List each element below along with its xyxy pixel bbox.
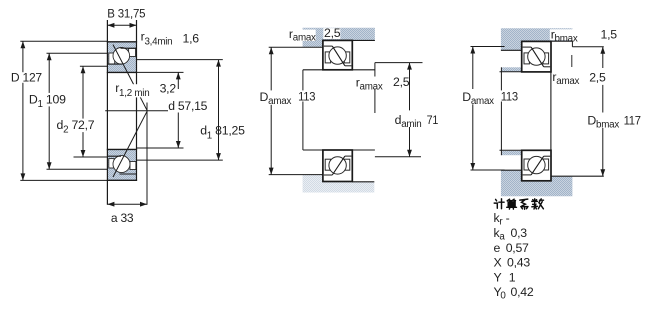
extension line d1 top bbox=[137, 59, 223, 61]
top bearing box bbox=[522, 41, 551, 72]
arrow D down bbox=[21, 173, 26, 180]
dimension da line lower part bbox=[409, 127, 411, 157]
svg-text:D 127: D 127 bbox=[11, 71, 42, 85]
shaft shoulder face line right lower part bbox=[374, 89, 376, 114]
glyph 系 bbox=[520, 199, 528, 209]
svg-text:113: 113 bbox=[501, 90, 519, 104]
shaft seat line bottom right bbox=[352, 149, 375, 151]
extension line D bottom bbox=[20, 179, 107, 181]
arrow d up bbox=[176, 72, 181, 79]
svg-text:e: e bbox=[494, 241, 501, 255]
svg-text:1,6: 1,6 bbox=[183, 31, 200, 45]
bottom box inner-ring line right bbox=[544, 155, 551, 157]
extension line d1 bottom bbox=[137, 159, 223, 161]
svg-text:3,2: 3,2 bbox=[160, 82, 177, 96]
housing bore line over boxes (top) bbox=[522, 40, 573, 42]
arrow D1 down bbox=[47, 162, 52, 169]
housing shoulder face line right (top) bbox=[571, 41, 573, 47]
shaft end face line lower part bbox=[302, 102, 304, 151]
housing bore line right of top box bbox=[352, 39, 375, 41]
bottom box right cage rect bbox=[344, 159, 350, 170]
heading 计算系数 (hand-drawn CJK strokes) bbox=[494, 199, 543, 210]
bearing right face line (also B extension) bbox=[136, 20, 138, 86]
bearing left face line (also B extension, extends to a-dimension) bbox=[106, 20, 108, 205]
bottom section outer-ring shoulder line bbox=[120, 173, 137, 175]
extension line d2 top bbox=[80, 65, 108, 67]
dimension Db line lower part bbox=[602, 128, 604, 176]
label d1 81,25 bbox=[200, 124, 245, 142]
bearing bottom section body (blue stippled rings) bbox=[107, 149, 136, 180]
bottom box contact diagonal bbox=[332, 156, 345, 175]
shaft shoulder strip top (stippled) bbox=[501, 67, 522, 71]
svg-text:1,5: 1,5 bbox=[601, 28, 618, 42]
housing shoulder surface line top left bbox=[269, 46, 323, 48]
top box ball bbox=[528, 48, 545, 65]
shaft seat line top left bbox=[500, 71, 523, 73]
arrow d1 up bbox=[216, 60, 221, 67]
arrow d1 down bbox=[216, 153, 221, 160]
value 1,5 bbox=[599, 28, 622, 42]
label D1 109 bbox=[28, 92, 67, 110]
shaft seat line bottom left bbox=[500, 149, 523, 151]
dimension a line bbox=[107, 203, 147, 205]
housing shoulder top line bottom-left bbox=[501, 169, 522, 171]
arrow Db up bbox=[600, 47, 605, 54]
bottom section right cage pocket (white) bbox=[130, 162, 136, 170]
shaft seat line top right bbox=[352, 69, 375, 71]
label D 127 bbox=[10, 71, 44, 85]
bottom section left cage pocket (white) bbox=[109, 159, 114, 168]
arrow B left bbox=[107, 23, 114, 28]
glyph 数 bbox=[532, 199, 544, 209]
dimension d line bbox=[177, 72, 179, 148]
arrow Da up bbox=[470, 47, 475, 54]
bottom box left cage rect bbox=[325, 159, 330, 170]
svg-text:0,57: 0,57 bbox=[506, 241, 529, 255]
label r1,2min (white bg over face line) bbox=[113, 81, 154, 99]
shaft end face line (right, between boxes) bbox=[550, 72, 552, 150]
dimension d1 line bbox=[218, 60, 220, 161]
bottom section top border (bore) bbox=[107, 148, 137, 150]
svg-text:0,43: 0,43 bbox=[507, 256, 530, 270]
label rb max (white bg over band) bbox=[550, 28, 583, 45]
dimension Da line lower part bbox=[270, 105, 272, 175]
arrow da down bbox=[407, 150, 412, 157]
svg-text:113: 113 bbox=[298, 90, 316, 104]
svg-text:B 31,75: B 31,75 bbox=[107, 7, 145, 21]
extension line Da top bbox=[471, 46, 505, 48]
top box ball bbox=[329, 47, 346, 64]
housing bore line right of bottom box bbox=[352, 181, 374, 183]
arrow a right bbox=[140, 202, 147, 207]
top box contact diagonal bbox=[332, 46, 345, 66]
extension line D top bbox=[20, 40, 107, 42]
bottom section bottom border (outer diameter) bbox=[107, 179, 137, 181]
label d 57,15 bbox=[168, 89, 207, 113]
arrow d2 up bbox=[81, 66, 86, 73]
dimension Da line upper part bbox=[472, 47, 474, 90]
housing shoulder surface line bottom left bbox=[269, 174, 323, 176]
bottom bearing box bbox=[522, 150, 551, 181]
bottom box inner-ring line right bbox=[345, 155, 352, 157]
housing shoulder bottom line top-left bbox=[501, 49, 522, 51]
bottom box ball bbox=[329, 157, 346, 174]
svg-text:2,5: 2,5 bbox=[393, 75, 410, 89]
arrow Da down bbox=[269, 168, 274, 175]
arrow B right bbox=[130, 23, 137, 28]
leader line from ra max label to shoulder corner bbox=[571, 55, 573, 67]
bottom box right cage rect bbox=[543, 159, 549, 170]
dimension da line upper part bbox=[409, 63, 411, 111]
top box left cage rect bbox=[524, 53, 529, 64]
housing bottom band (light stippled) with abutment shoulder bbox=[303, 175, 375, 193]
top box right cage rect bbox=[344, 52, 350, 63]
bottom bearing box bbox=[323, 150, 352, 182]
svg-text:Y: Y bbox=[494, 270, 502, 284]
dimension D1 line bbox=[48, 53, 50, 169]
extension line D1 bottom bbox=[47, 168, 108, 170]
extension line d top (bore) bbox=[137, 71, 184, 73]
dimension B line bbox=[107, 24, 136, 26]
top box outer-ring line left bbox=[523, 46, 532, 48]
top section inner-ring shoulder line bbox=[107, 63, 122, 65]
housing top band (stippled) with left shoulder bbox=[501, 28, 573, 50]
svg-text:d 57,15: d 57,15 bbox=[168, 99, 207, 113]
arrow Da up bbox=[269, 47, 274, 54]
bottom box outer-ring line left bbox=[324, 174, 333, 176]
svg-text:0: 0 bbox=[500, 291, 506, 302]
top box inner-ring line right bbox=[345, 65, 352, 67]
dimension d2 line bbox=[82, 66, 84, 157]
top section top border (outer diameter) bbox=[107, 41, 137, 43]
arrow D1 up bbox=[47, 53, 52, 60]
top box contact diagonal bbox=[531, 47, 544, 67]
arrow d down bbox=[176, 141, 181, 148]
svg-text:2,5: 2,5 bbox=[324, 26, 341, 40]
contact angle line through top ball bbox=[113, 45, 147, 111]
shaft end face line bbox=[302, 70, 304, 91]
shaft seat line bottom left bbox=[303, 149, 323, 151]
housing Db surface line top right bbox=[572, 46, 603, 48]
dimension Db line upper part bbox=[602, 47, 604, 68]
top section outer-ring shoulder line bbox=[121, 47, 137, 49]
top section bottom border (bore) bbox=[107, 71, 137, 73]
bottom box ball bbox=[528, 156, 545, 173]
extension line D1 top bbox=[47, 52, 108, 54]
arrow Db down bbox=[600, 169, 605, 176]
arrow Da down bbox=[470, 163, 475, 170]
shaft shoulder surface line top right bbox=[375, 62, 423, 64]
top section left cage pocket (white) bbox=[109, 53, 115, 64]
bottom section inner-ring shoulder line bbox=[107, 155, 121, 157]
arrow d2 down bbox=[81, 150, 86, 157]
top bearing box bbox=[323, 40, 352, 69]
bottom box outer-ring line left bbox=[523, 174, 532, 176]
extension line Da bottom bbox=[471, 169, 505, 171]
top section ball bbox=[113, 48, 130, 65]
top box outer-ring line left bbox=[324, 45, 333, 47]
shaft shoulder surface line bottom right bbox=[375, 156, 421, 158]
shaft shoulder face line right bbox=[374, 63, 376, 77]
top box inner-ring line right bbox=[544, 66, 551, 68]
arrow da up bbox=[407, 63, 412, 70]
svg-text:2,5: 2,5 bbox=[589, 71, 606, 85]
extension line d2 bottom bbox=[74, 156, 108, 158]
top box right cage rect bbox=[543, 53, 549, 64]
glyph 算 bbox=[507, 199, 517, 209]
bottom box left cage rect bbox=[524, 159, 529, 170]
contact angle line through bottom ball bbox=[113, 111, 147, 177]
housing bottom band (stippled) with left shoulder bbox=[501, 170, 573, 196]
svg-text:71: 71 bbox=[427, 113, 439, 127]
dimension D line bbox=[22, 41, 24, 180]
bearing axis line bbox=[105, 110, 168, 112]
shaft end face vertical lower part bbox=[500, 102, 502, 156]
bottom section ball bbox=[113, 156, 130, 173]
dimension Da line lower part bbox=[472, 104, 474, 170]
bearing right face line lower part bbox=[136, 97, 138, 181]
housing bore line right of bottom box bbox=[551, 175, 604, 177]
top section right cage pocket (white) bbox=[129, 48, 136, 56]
bottom box contact diagonal bbox=[531, 156, 544, 175]
value 2,5 top (over band) bbox=[323, 26, 340, 40]
arrow a left bbox=[107, 202, 114, 207]
svg-text:0,42: 0,42 bbox=[511, 285, 534, 299]
housing top band (stippled) with abutment shoulder bbox=[303, 28, 375, 47]
svg-text:117: 117 bbox=[624, 114, 642, 128]
shaft shoulder strip bottom (stippled) bbox=[501, 151, 522, 155]
glyph 计 bbox=[494, 199, 504, 209]
svg-text:a 33: a 33 bbox=[111, 211, 134, 225]
shaft seat line top left bbox=[303, 69, 323, 71]
label d2 72,7 bbox=[55, 118, 95, 136]
top box left cage rect bbox=[325, 52, 330, 63]
label ra max top (over band) bbox=[288, 27, 316, 44]
bearing top section body (blue stippled rings) bbox=[107, 42, 136, 73]
arrow D up bbox=[21, 41, 26, 48]
shaft end face vertical at shoulder strips bbox=[500, 67, 502, 90]
svg-text:0,3: 0,3 bbox=[511, 226, 528, 240]
dimension Da line upper part bbox=[270, 47, 272, 90]
svg-text:1: 1 bbox=[509, 270, 516, 284]
dimension Db line middle part bbox=[602, 85, 604, 113]
svg-text:X: X bbox=[494, 256, 502, 270]
extension line d bottom (bore) bbox=[137, 147, 184, 149]
extension line a (from contact point down) bbox=[146, 103, 148, 205]
